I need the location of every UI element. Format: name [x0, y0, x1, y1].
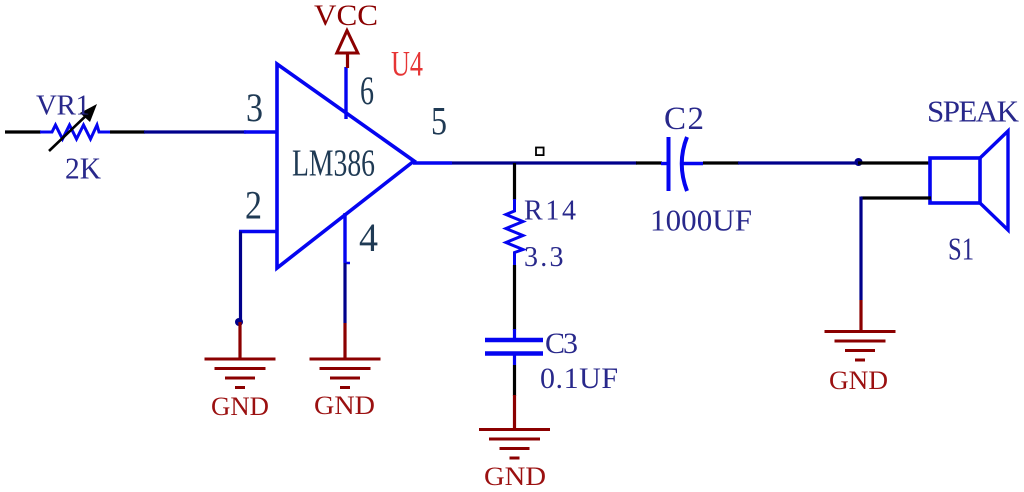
wire: navy to speaker junction — [738, 161, 858, 164]
ground GND (C3) — [479, 430, 550, 459]
wire: navy segment to pin 3 — [144, 130, 246, 133]
wire: red stub to GND (pin2) — [238, 322, 241, 358]
svg-text:4: 4 — [359, 215, 378, 260]
wire: speaker bottom terminal black — [861, 196, 931, 199]
wire: output navy segment — [452, 161, 637, 164]
svg-text:GND: GND — [829, 366, 888, 395]
capacitor C3 — [485, 329, 543, 365]
power VCC symbol (open arrow) — [337, 31, 358, 69]
wire: black between R14 and C3 — [513, 265, 516, 330]
junction dot at speaker node — [855, 158, 863, 166]
speaker S1 symbol — [930, 131, 1008, 230]
wire: junction vertical black to R14 — [513, 163, 516, 200]
svg-text:C3: C3 — [545, 327, 578, 360]
pin 4 — [343, 213, 346, 263]
svg-text:6: 6 — [360, 68, 374, 113]
VR1 wiper arrow — [49, 104, 97, 151]
svg-text:GND: GND — [314, 391, 375, 420]
svg-text:3.3: 3.3 — [524, 242, 564, 273]
ground GND (pin 2) — [205, 359, 276, 388]
svg-text:LM386: LM386 — [292, 143, 375, 185]
svg-text:VR1: VR1 — [36, 90, 90, 122]
svg-text:SPEAK: SPEAK — [927, 94, 1020, 129]
wire: black to speaker top terminal — [858, 161, 931, 164]
svg-text:2: 2 — [245, 183, 262, 228]
wire: black segment right of VR1 — [110, 130, 145, 133]
wire: red stub to GND (speaker) — [859, 300, 862, 331]
wire: pin2 to ground (navy vertical) — [239, 232, 242, 323]
svg-text:VCC: VCC — [314, 0, 378, 32]
resistor R14 — [506, 199, 523, 265]
pin 2 — [239, 230, 277, 233]
junction dot at pin2 ground wire — [235, 318, 243, 326]
svg-text:1000UF: 1000UF — [650, 203, 752, 238]
wire: input segment left (black) — [5, 130, 41, 133]
wire: red stub to GND (C3) — [513, 395, 516, 429]
svg-text:C2: C2 — [664, 101, 704, 137]
resistor VR1 (variable, zigzag body) — [40, 125, 110, 139]
node marker (small open square) — [536, 148, 544, 156]
svg-text:GND: GND — [211, 392, 269, 421]
svg-text:3: 3 — [246, 85, 263, 130]
svg-text:S1: S1 — [948, 231, 974, 267]
ground GND (pin 4) — [310, 359, 381, 388]
capacitor C2 (polarized) — [661, 137, 703, 191]
svg-text:2K: 2K — [65, 151, 102, 186]
svg-text:U4: U4 — [391, 44, 423, 84]
wire: black below C3 — [513, 365, 516, 396]
wire: pin4 to ground (navy vertical) — [343, 263, 346, 323]
wire: red stub to GND (pin4) — [343, 323, 346, 358]
wire: output black segment to C2 — [636, 161, 662, 164]
wire: navy down from speaker to ground — [859, 197, 862, 301]
ground GND (speaker) — [825, 332, 896, 361]
pin 3 — [244, 130, 277, 133]
svg-text:R14: R14 — [524, 196, 576, 227]
pin 5 — [413, 161, 452, 164]
svg-text:0.1UF: 0.1UF — [540, 362, 618, 395]
svg-text:5: 5 — [431, 99, 447, 144]
op-amp U1 LM386 triangle — [277, 64, 414, 268]
svg-text:GND: GND — [484, 462, 546, 491]
pin 6 — [344, 67, 347, 119]
wire: black right of C2 — [703, 161, 739, 164]
